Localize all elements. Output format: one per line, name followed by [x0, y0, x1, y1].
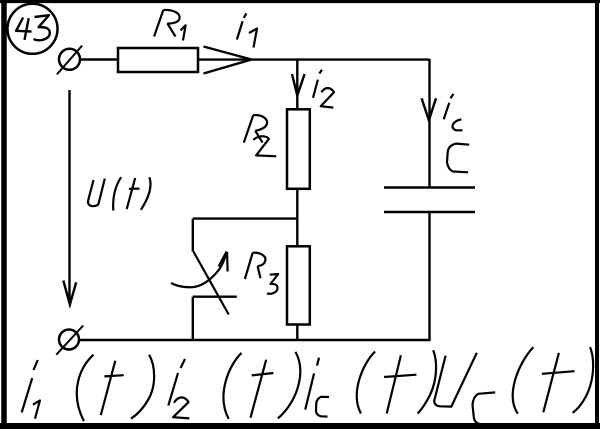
label i1 [237, 13, 257, 47]
label U(t) [88, 177, 151, 210]
task number badge 43 [8, 4, 58, 54]
resistor R2 [287, 109, 310, 189]
bottom label ic(t) [305, 350, 436, 416]
arrow i2 [292, 74, 305, 96]
label R2 [244, 115, 276, 156]
wire right vertical upper [428, 59, 430, 188]
wire R3 to bottom [296, 325, 298, 341]
wire bottom horizontal [79, 339, 431, 341]
wire terminal to R1 [80, 58, 118, 60]
bottom label i2(t) [168, 352, 300, 419]
label R1 [154, 10, 186, 41]
wire tap upper horizontal [193, 217, 297, 219]
label C [447, 144, 469, 173]
wire tap upper vertical [192, 219, 194, 252]
terminal top-left [57, 46, 82, 75]
resistor R1 [118, 48, 198, 72]
capacitor C plates [384, 188, 475, 213]
blade diagonal [193, 252, 228, 315]
resistor R3 [287, 246, 310, 324]
bottom label Uc(t) [434, 347, 593, 425]
variable arrow (curved) [171, 252, 228, 288]
wire top horizontal [198, 58, 429, 60]
wire tap lower vertical [192, 297, 194, 340]
terminal bottom-left [56, 326, 83, 355]
label R3 [245, 253, 278, 294]
wire right vertical lower [428, 212, 430, 340]
wire R2 to R3 [296, 189, 298, 247]
wire tap lower horizontal [193, 296, 237, 298]
arrow ic [422, 98, 436, 120]
bottom label i1(t) [22, 355, 154, 421]
wire node to R2 [296, 60, 298, 110]
label i2 [313, 70, 334, 108]
arrow i1 [204, 47, 252, 74]
voltage arrow U(t) [63, 90, 76, 305]
label ic [444, 94, 463, 130]
